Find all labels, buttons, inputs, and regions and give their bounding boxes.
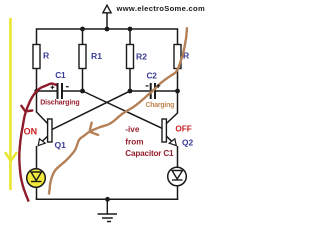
note -ive from Capacitor C1 [125, 125, 174, 158]
wire left rail emitter to LED [36, 146, 38, 169]
svg-text:C2: C2 [147, 70, 158, 80]
node dot bottom rail at ground [105, 197, 110, 202]
svg-text:OFF: OFF [175, 124, 191, 133]
svg-text:R1: R1 [91, 51, 102, 61]
cross coupling wire from C2 node to Q1 base [52, 91, 130, 130]
resistor R1 [79, 45, 102, 69]
wire right rail upper [177, 28, 179, 45]
LED D1 (on, yellow) [27, 169, 46, 188]
charging path arc (orange) [49, 27, 187, 194]
capacitor C1 polarity minus [66, 86, 69, 88]
wire rail R2 upper [129, 29, 131, 45]
wire rail R1 lower [82, 69, 84, 92]
LED D2 (off, white) [168, 167, 187, 186]
svg-text:www.electroSome.com: www.electroSome.com [116, 4, 206, 13]
resistor R2 [127, 45, 148, 69]
svg-text:Charging: Charging [146, 102, 175, 109]
capacitor C1 [37, 70, 83, 99]
node dot C2 right [175, 89, 180, 94]
wire right LED to bottom rail [177, 186, 179, 201]
svg-text:from: from [125, 137, 143, 146]
node dot on top rail at supply arrow [105, 27, 110, 32]
resistor R (right) [174, 45, 190, 69]
capacitor C2 polarity minus [146, 85, 149, 87]
node dot C2 left [128, 89, 133, 94]
capacitor C1 polarity plus [51, 85, 55, 89]
wire left rail from R to collector bend [36, 69, 38, 113]
label OFF [175, 124, 191, 133]
bottom ground rail wire [36, 198, 178, 200]
svg-text:C1: C1 [55, 70, 66, 80]
label Charging [146, 102, 175, 109]
capacitor C2 polarity plus [157, 84, 161, 88]
node dot C1 left [34, 89, 38, 93]
wire right rail emitter to LED [177, 146, 179, 168]
svg-text:R2: R2 [136, 51, 147, 61]
wire rail R1 upper [82, 29, 84, 45]
transistor Q2 [162, 113, 194, 148]
cross coupling wire from C1 node to Q2 base [83, 91, 162, 128]
discharging path arc (dark red) [19, 84, 57, 202]
resistor R (left) [33, 45, 50, 69]
wire left rail upper [36, 28, 38, 45]
svg-text:-ive: -ive [125, 125, 140, 134]
svg-text:ON: ON [24, 126, 37, 136]
node dot C1 right [80, 89, 85, 94]
supply arrow (Vcc) [103, 5, 111, 29]
svg-text:Discharging: Discharging [40, 100, 79, 107]
label Discharging [40, 100, 79, 107]
node dot on top rail at R1 [80, 27, 85, 32]
ground symbol [98, 199, 118, 221]
svg-text:R: R [43, 51, 50, 61]
svg-text:Q2: Q2 [182, 138, 194, 148]
wire rail R2 lower [129, 69, 131, 92]
capacitor C2 [130, 70, 178, 99]
yellow current arrow (left) [6, 18, 17, 190]
label ON [24, 126, 37, 136]
transistor Q1 [37, 112, 67, 150]
wire right rail from R to collector bend [177, 69, 179, 114]
website label www.electroSome.com [116, 4, 206, 13]
svg-text:Q1: Q1 [55, 140, 67, 150]
top supply rail wire [37, 28, 178, 30]
svg-text:Capacitor C1: Capacitor C1 [125, 149, 174, 158]
wire left LED to bottom rail [36, 187, 38, 200]
node dot on top rail at R2 [128, 27, 133, 32]
